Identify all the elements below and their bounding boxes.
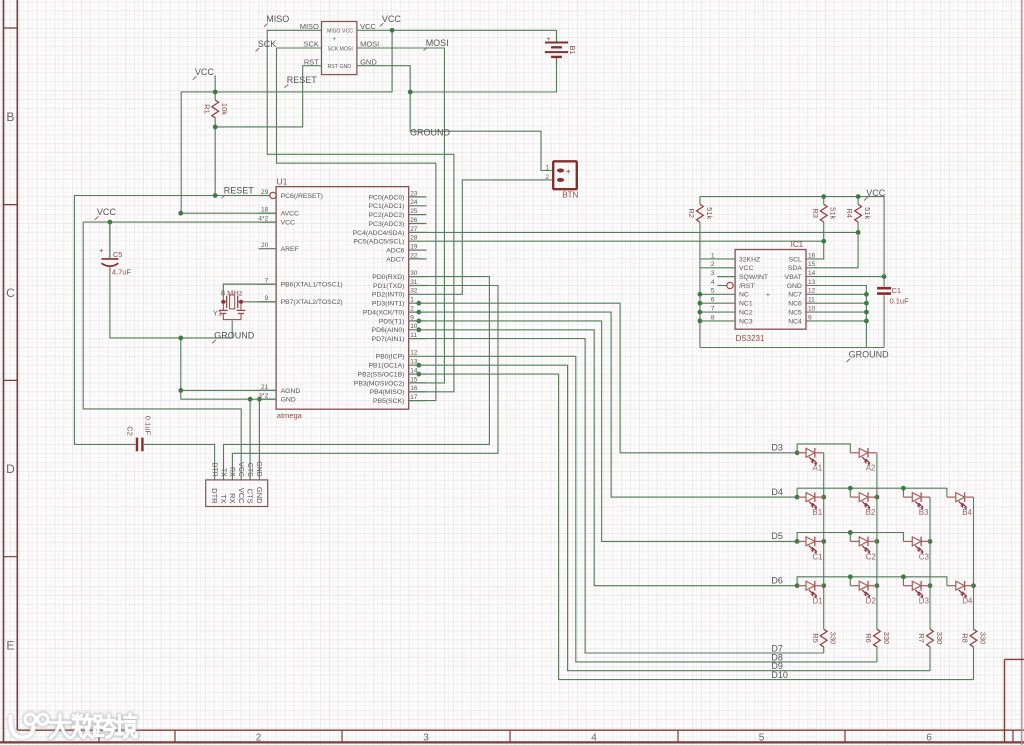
U1 right pin 30 PD0(RXD)	[409, 276, 427, 278]
led D4	[947, 585, 956, 587]
ic IC1 DS3231 box	[735, 250, 806, 330]
wire RX net (FTDI RX to PD1/TXD)	[232, 286, 498, 480]
U1 right pin 19 ADC6	[409, 249, 427, 251]
svg-text:AGND: AGND	[281, 388, 301, 395]
svg-text:5: 5	[711, 288, 715, 295]
U1 right pin 31 PD1(TXD)	[409, 285, 427, 287]
svg-text:PD2(INT0): PD2(INT0)	[372, 292, 404, 299]
svg-text:330: 330	[882, 632, 891, 645]
svg-text:PC6(/RESET): PC6(/RESET)	[281, 193, 323, 200]
U1 right pin 32 PD2(INT0)	[409, 293, 427, 295]
svg-text:PC3(ADC3): PC3(ADC3)	[369, 221, 405, 228]
svg-text:RST: RST	[304, 57, 319, 66]
svg-text:4: 4	[711, 279, 715, 286]
svg-text:SCK: SCK	[328, 46, 339, 52]
svg-text:PD4(XCK/T0): PD4(XCK/T0)	[363, 310, 405, 317]
resistor R2 51k	[697, 204, 704, 222]
pushbutton BTN	[553, 161, 577, 189]
svg-text:BTN: BTN	[562, 191, 578, 200]
wire DS3231 ground line and right bus	[700, 286, 884, 348]
U1 right pin 13 PB1(OC1A)	[409, 364, 427, 366]
svg-text:C1: C1	[812, 552, 823, 561]
junction dots LED matrix	[795, 450, 800, 455]
svg-text:VCC: VCC	[237, 462, 244, 477]
svg-text:330: 330	[829, 632, 838, 645]
capacitor C2 0.1uF	[137, 438, 142, 452]
led B2	[850, 496, 859, 498]
svg-text:13: 13	[808, 279, 816, 286]
wire net D5 (PD5 to LED row 3)	[426, 321, 797, 542]
frame bottom border lines	[17, 729, 1024, 731]
svg-text:D1: D1	[812, 597, 823, 606]
wire net D9 (PB1 to R7 bottom bus)	[426, 365, 930, 671]
svg-text:7: 7	[265, 278, 269, 285]
U1 left pin 4*2 VCC	[258, 221, 276, 223]
svg-text:PB5(SCK): PB5(SCK)	[373, 398, 404, 405]
svg-text:R2: R2	[687, 208, 696, 218]
svg-text:6: 6	[711, 297, 715, 304]
svg-text:PB1(OC1A): PB1(OC1A)	[369, 363, 405, 370]
svg-text:MOSI: MOSI	[360, 40, 379, 49]
svg-text:24: 24	[410, 199, 418, 206]
U1 left pin 20 AREF	[258, 248, 276, 250]
led A2	[850, 452, 859, 454]
svg-text:2: 2	[545, 174, 549, 181]
svg-text:PD7(AIN1): PD7(AIN1)	[372, 336, 405, 343]
IC1 left pin 4 /RST	[717, 285, 726, 287]
svg-text:12: 12	[410, 350, 418, 357]
svg-text:25: 25	[410, 208, 418, 215]
svg-text:DS3231: DS3231	[736, 334, 765, 343]
resistor R6 330	[874, 629, 881, 647]
svg-text:13: 13	[410, 359, 418, 366]
svg-text:15: 15	[410, 376, 418, 383]
svg-text:AVCC: AVCC	[281, 211, 299, 218]
svg-text:GROUND: GROUND	[849, 349, 889, 359]
wire LED row2 anode jog	[797, 488, 947, 497]
svg-text:GROUND: GROUND	[410, 128, 450, 138]
svg-text:17: 17	[410, 394, 418, 401]
wire LED row4 anode jog	[797, 577, 947, 586]
svg-text:51k: 51k	[829, 207, 838, 219]
wire BTN pin2 to PD2/INT0	[426, 180, 553, 294]
svg-text:PC0(ADC0): PC0(ADC0)	[369, 194, 405, 201]
frame bottom column ticks	[99, 730, 1013, 742]
U1 right pin 23 PC0(ADC0)	[409, 196, 427, 198]
svg-text:R8: R8	[961, 633, 970, 643]
IC1 left pin 3 SQW/INT	[717, 276, 735, 278]
svg-text:/RST: /RST	[739, 283, 754, 290]
svg-text:MISO: MISO	[300, 22, 319, 31]
svg-text:NC6: NC6	[788, 301, 802, 308]
U1 right pin 12 PB0(ICP)	[409, 355, 427, 357]
frame right border line	[1021, 0, 1023, 745]
svg-text:51k: 51k	[705, 207, 714, 219]
svg-text:R6: R6	[864, 633, 873, 643]
svg-text:D: D	[6, 462, 15, 476]
svg-text:NC5: NC5	[788, 309, 802, 316]
led B4	[947, 496, 956, 498]
connector ISP header box	[322, 22, 357, 75]
wire VBAT to C1	[806, 276, 884, 278]
resistor R7 330	[927, 629, 934, 647]
svg-text:B4: B4	[962, 508, 972, 517]
svg-text:21: 21	[261, 384, 269, 391]
U1 right pin 1 PD3(INT1)	[409, 302, 427, 304]
svg-text:ADC6: ADC6	[386, 248, 404, 255]
battery B1	[556, 30, 558, 64]
U1 right pin 25 PC2(ADC2)	[409, 214, 427, 216]
svg-text:Y1: Y1	[213, 308, 222, 317]
svg-text:+: +	[547, 36, 551, 43]
wire SCK net	[277, 48, 436, 401]
svg-text:0.1uF: 0.1uF	[890, 297, 910, 306]
wire LED cathode column 2	[876, 453, 878, 662]
U1 right pin 2 PD4(XCK/T0)	[409, 311, 427, 313]
svg-text:VBAT: VBAT	[785, 274, 802, 281]
U1 right pin 27 PC4(ADC4/SDA)	[409, 231, 427, 233]
svg-text:U1: U1	[277, 176, 288, 186]
svg-text:D6: D6	[771, 576, 783, 586]
led C2	[850, 540, 859, 542]
svg-text:1: 1	[711, 252, 715, 259]
svg-text:+: +	[333, 37, 337, 43]
svg-text:10: 10	[808, 305, 816, 312]
connector FTDI header box	[206, 480, 268, 507]
svg-text:TX: TX	[219, 494, 228, 504]
svg-text:5: 5	[759, 733, 765, 744]
svg-text:A1: A1	[812, 464, 822, 473]
svg-text:20: 20	[261, 242, 269, 249]
svg-text:R1: R1	[202, 104, 211, 114]
svg-text:SQW/INT: SQW/INT	[739, 274, 768, 281]
wire DS3231 left bus (32KHZ/VCC/NC pins to ground)	[700, 222, 735, 348]
svg-text:51k: 51k	[863, 207, 872, 219]
svg-text:28: 28	[410, 235, 418, 242]
U1 right pin 24 PC1(ADC1)	[409, 205, 427, 207]
svg-text:26: 26	[410, 217, 418, 224]
svg-text:PB2(SS/OC1B): PB2(SS/OC1B)	[358, 372, 405, 379]
svg-text:14: 14	[410, 368, 418, 375]
svg-text:8 MHz: 8 MHz	[221, 288, 243, 297]
wire TX net (FTDI TX to PD0/RXD)	[224, 277, 490, 480]
U1 right pin 22 ADC7	[409, 258, 427, 260]
svg-text:VCC: VCC	[866, 188, 886, 198]
svg-text:B3: B3	[919, 508, 929, 517]
resistor R8 330	[970, 629, 977, 647]
svg-text:PC4(ADC4/SDA): PC4(ADC4/SDA)	[353, 230, 405, 237]
svg-text:D2: D2	[866, 597, 877, 606]
svg-text:R5: R5	[811, 633, 820, 643]
svg-text:MISO: MISO	[266, 14, 289, 24]
svg-text:VCC: VCC	[195, 67, 215, 77]
svg-text:PC1(ADC1): PC1(ADC1)	[369, 203, 405, 210]
svg-text:3: 3	[711, 270, 715, 277]
wire LED row1 anode jog	[797, 444, 850, 453]
crystal Y1 8MHz with load caps	[221, 300, 225, 304]
resistor R3 51k	[820, 204, 827, 222]
svg-text:VCC: VCC	[281, 220, 295, 227]
svg-text:PB3(MOSI/OC2): PB3(MOSI/OC2)	[354, 380, 405, 387]
U1 right pin 9 PD5(T1)	[409, 320, 427, 322]
svg-text:14: 14	[808, 270, 816, 277]
svg-text:R3: R3	[811, 208, 820, 218]
svg-text:B1: B1	[568, 45, 577, 54]
U1 right pin 16 PB4(MISO)	[409, 391, 427, 393]
svg-text:C1: C1	[892, 286, 902, 295]
svg-text:D5: D5	[771, 531, 783, 541]
led D2	[850, 585, 859, 587]
svg-text:PD0(RXD): PD0(RXD)	[372, 274, 404, 281]
svg-text:+: +	[566, 167, 571, 176]
led B3	[903, 496, 912, 498]
svg-text:SCK: SCK	[303, 40, 318, 49]
svg-text:NC3: NC3	[739, 318, 753, 325]
wire LED cathode column 3	[929, 497, 931, 671]
svg-text:CTS: CTS	[246, 463, 253, 477]
svg-text:GND: GND	[281, 397, 296, 404]
svg-text:4*2: 4*2	[258, 216, 268, 223]
svg-text:R7: R7	[917, 633, 926, 643]
svg-text:ADC7: ADC7	[386, 256, 404, 263]
svg-text:8: 8	[711, 314, 715, 321]
svg-text:SCL: SCL	[789, 256, 802, 263]
svg-text:6: 6	[926, 733, 932, 744]
wire analog ground net (C5 bottom, crystal, AGND, GND, FTDI CTS/GND)	[110, 268, 276, 480]
led D1	[797, 585, 806, 587]
watermark logo and text	[10, 714, 136, 738]
svg-text:4.7uF: 4.7uF	[112, 268, 132, 277]
U1 pin 29 PC6/RESET with bubble	[258, 195, 269, 197]
svg-text:B2: B2	[866, 508, 876, 517]
svg-text:PB0(ICP): PB0(ICP)	[376, 354, 405, 361]
svg-text:D3: D3	[771, 443, 783, 453]
svg-text:C2: C2	[125, 426, 134, 436]
svg-text:MOSI: MOSI	[426, 38, 449, 48]
svg-text:PB6(XTAL1/TOSC1): PB6(XTAL1/TOSC1)	[281, 282, 343, 289]
ic U1 atmega box	[276, 187, 409, 410]
frame left row ticks	[4, 28, 18, 557]
svg-text:DTR: DTR	[210, 488, 219, 504]
led A1	[797, 452, 806, 454]
svg-text:PD3(INT1): PD3(INT1)	[372, 301, 404, 308]
svg-text:D4: D4	[962, 597, 973, 606]
svg-text:12: 12	[808, 288, 816, 295]
resistor R4 51k	[855, 204, 862, 222]
led B1	[797, 496, 806, 498]
resistor R1 10k	[212, 100, 219, 118]
led C3	[903, 540, 912, 542]
wire SCL net (PC5 to R3, DS3231 SCL)	[426, 197, 823, 259]
svg-text:B1: B1	[812, 508, 822, 517]
svg-text:D10: D10	[771, 670, 788, 680]
U1 right pin 11 PD7(AIN1)	[409, 338, 427, 340]
wire net D3 (PD3 to LED row 1)	[426, 303, 797, 453]
svg-text:RESET: RESET	[224, 186, 255, 196]
svg-text:10: 10	[410, 323, 418, 330]
svg-text:0.1uF: 0.1uF	[144, 416, 153, 436]
svg-text:22: 22	[410, 252, 418, 259]
svg-text:16: 16	[808, 252, 816, 259]
svg-text:1: 1	[545, 165, 549, 172]
svg-text:atmega: atmega	[277, 411, 303, 420]
svg-text:PC2(ADC2): PC2(ADC2)	[369, 212, 405, 219]
svg-text:30: 30	[410, 270, 418, 277]
wire MISO net	[267, 30, 454, 392]
svg-text:MOSI: MOSI	[340, 46, 353, 52]
U1 left pin 3*2 GND	[258, 398, 276, 400]
svg-text:VCC: VCC	[739, 265, 753, 272]
svg-text:TX: TX	[219, 468, 226, 477]
svg-text:MISO: MISO	[327, 29, 340, 35]
svg-text:NC: NC	[739, 292, 749, 299]
U1 left pin 18 AVCC	[258, 212, 276, 214]
resistor R5 330	[820, 629, 827, 647]
wire C1 stems	[883, 277, 885, 348]
svg-text:1: 1	[410, 297, 414, 304]
svg-text:27: 27	[410, 226, 418, 233]
svg-text:2: 2	[256, 733, 262, 744]
svg-text:RX: RX	[228, 467, 235, 477]
wire net D10 (PB2 to R8 bottom bus)	[426, 374, 973, 679]
svg-text:E: E	[6, 639, 14, 653]
junction dots U1 right pins	[416, 301, 421, 306]
svg-text:RST: RST	[328, 64, 339, 70]
crystal pin wires	[223, 284, 276, 302]
svg-text:15: 15	[808, 261, 816, 268]
junction dots power/reset area	[213, 90, 218, 95]
led D3	[903, 585, 912, 587]
svg-text:11: 11	[808, 297, 815, 304]
svg-text:+: +	[99, 248, 103, 255]
svg-text:330: 330	[935, 632, 944, 645]
svg-text:VCC: VCC	[342, 29, 353, 35]
U1 left pin 9 PB7(XTAL2/TOSC2)	[258, 301, 276, 303]
svg-text:2: 2	[410, 306, 414, 313]
svg-text:GROUND: GROUND	[214, 331, 254, 341]
svg-text:23: 23	[410, 190, 418, 197]
svg-text:C2: C2	[866, 552, 877, 561]
wire VCC net (R1 rail, battery top, AVCC/VCC feeds, FTDI VCC)	[83, 30, 556, 480]
svg-text:2: 2	[711, 261, 715, 268]
svg-text:GND: GND	[360, 57, 377, 66]
capacitor C1 0.1uF	[877, 288, 891, 293]
U1 left pin 7 PB6(XTAL1/TOSC1)	[258, 283, 276, 285]
svg-text:VCC: VCC	[360, 22, 376, 31]
svg-text:3: 3	[423, 733, 429, 744]
wire MOSI net	[357, 48, 444, 383]
svg-text:VCC: VCC	[237, 488, 246, 504]
frame left border lines	[4, 0, 18, 742]
U1 left pin 21 AGND	[258, 389, 276, 391]
svg-text:29: 29	[261, 189, 269, 196]
svg-text:NC1: NC1	[739, 301, 753, 308]
svg-text:D3: D3	[919, 597, 930, 606]
title block corner	[1005, 659, 1024, 742]
wire RESET net (R1 bottom, ISP RST, pin29, DTR cap)	[74, 66, 321, 480]
svg-text:19: 19	[410, 244, 418, 251]
svg-text:7: 7	[711, 305, 715, 312]
svg-text:PB4(MISO): PB4(MISO)	[370, 389, 405, 396]
svg-text:PB7(XTAL2/TOSC2): PB7(XTAL2/TOSC2)	[281, 299, 343, 306]
svg-text:PD5(T1): PD5(T1)	[379, 318, 405, 325]
wire net D8 (PB0 to R6 bottom bus)	[426, 356, 877, 662]
svg-text:16: 16	[410, 385, 418, 392]
svg-text:IC1: IC1	[791, 240, 804, 249]
svg-text:330: 330	[978, 632, 987, 645]
U1 right pin 26 PC3(ADC3)	[409, 223, 427, 225]
svg-text:NC4: NC4	[788, 318, 802, 325]
wire LED row3 anode jog	[797, 533, 903, 542]
svg-text:31: 31	[410, 279, 418, 286]
svg-text:GND: GND	[255, 461, 262, 477]
svg-text:11: 11	[410, 332, 417, 339]
svg-text:NC2: NC2	[739, 309, 753, 316]
svg-text:9: 9	[808, 314, 812, 321]
wire net D7 (PD7 to R5 bottom bus)	[426, 339, 823, 653]
svg-text:B: B	[6, 110, 14, 124]
svg-text:VCC: VCC	[382, 14, 402, 24]
wire VCC rail right (R2/R3/R4 tops, C1)	[700, 197, 884, 277]
wire SDA net (PC4 to R4, DS3231 SDA)	[426, 197, 858, 268]
svg-text:D4: D4	[771, 487, 783, 497]
svg-text:32KHZ: 32KHZ	[739, 256, 760, 263]
led C1	[797, 540, 806, 542]
capacitor C5 4.7uF polarized	[101, 258, 118, 260]
svg-text:PD1(TXD): PD1(TXD)	[373, 283, 404, 290]
wire net D4 (PD4 to LED row 2)	[426, 312, 797, 497]
U1 right pin 28 PC5(ADC5/SCL)	[409, 240, 427, 242]
svg-text:3*2: 3*2	[258, 393, 268, 400]
svg-text:18: 18	[261, 207, 269, 214]
svg-text:PC5(ADC5/SCL): PC5(ADC5/SCL)	[353, 239, 404, 246]
svg-text:9: 9	[410, 314, 414, 321]
svg-text:CTS: CTS	[246, 489, 255, 504]
svg-text:+: +	[766, 292, 770, 299]
wire LED cathode column 4	[973, 497, 975, 679]
svg-text:10k: 10k	[220, 103, 229, 115]
svg-text:32: 32	[410, 288, 418, 295]
svg-text:RESET: RESET	[287, 75, 318, 85]
wire LED cathode column 1	[823, 453, 825, 653]
svg-text:GND: GND	[255, 487, 264, 504]
wire GROUND net (battery bottom, ISP GND, BTN pin1)	[357, 58, 557, 171]
svg-text:DTR: DTR	[210, 462, 217, 476]
junction dots DS3231 area	[821, 194, 826, 199]
U1 right pin 15 PB3(MOSI/OC2)	[409, 382, 427, 384]
svg-text:RX: RX	[228, 493, 237, 503]
svg-text:GND: GND	[340, 64, 352, 70]
U1 right pin 17 PB5(SCK)	[409, 400, 427, 402]
U1 right pin 10 PD6(AIN0)	[409, 329, 427, 331]
svg-text:C: C	[6, 286, 15, 300]
svg-text:NC7: NC7	[788, 292, 802, 299]
U1 right pin 14 PB2(SS/OC1B)	[409, 373, 427, 375]
wire net D6 (PD6 to LED row 4)	[426, 330, 797, 586]
svg-text:C3: C3	[919, 552, 930, 561]
svg-text:4: 4	[591, 733, 597, 744]
svg-text:AREF: AREF	[281, 246, 299, 253]
svg-text:9: 9	[265, 295, 269, 302]
svg-text:SDA: SDA	[788, 265, 802, 272]
svg-text:R4: R4	[845, 208, 854, 218]
svg-text:PD6(AIN0): PD6(AIN0)	[372, 327, 405, 334]
svg-text:GND: GND	[787, 283, 802, 290]
svg-text:VCC: VCC	[97, 207, 117, 217]
svg-text:SCK: SCK	[258, 39, 277, 49]
svg-text:A2: A2	[866, 464, 876, 473]
svg-text:C5: C5	[113, 250, 123, 259]
